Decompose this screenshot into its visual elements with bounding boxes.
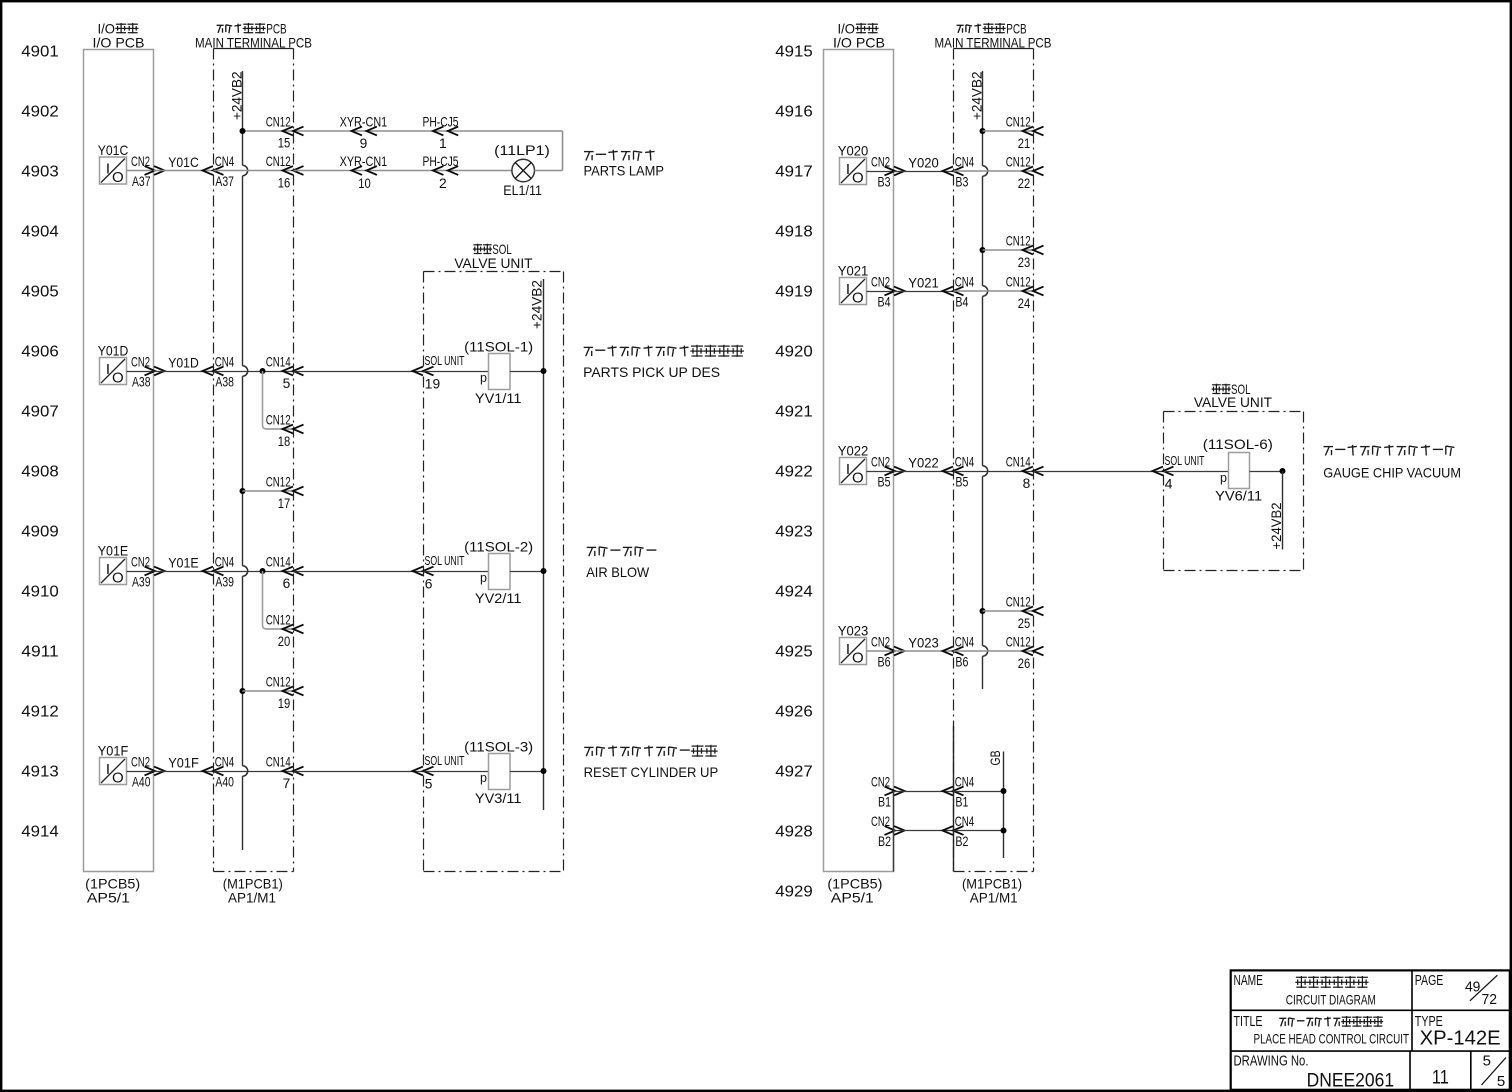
svg-text:RESET CYLINDER UP: RESET CYLINDER UP xyxy=(584,765,719,780)
svg-text:O: O xyxy=(852,170,864,187)
VALVE UNIT label (left) xyxy=(454,242,533,271)
svg-text:CN2: CN2 xyxy=(871,154,890,169)
junction +24VB2 to CN12-25 (right) xyxy=(980,608,986,614)
svg-text:I: I xyxy=(846,161,850,178)
svg-text:CN4: CN4 xyxy=(215,554,235,569)
row numbers 4915-4929 xyxy=(775,43,813,900)
MAIN TERMINAL PCB board outline (right) xyxy=(954,49,1034,872)
I/O PCB board outline (left) xyxy=(84,50,154,872)
connector SOL UNIT pin 4 (right) xyxy=(1153,453,1205,492)
svg-text:CN12: CN12 xyxy=(266,612,291,627)
svg-text:Y01C: Y01C xyxy=(168,155,199,170)
svg-text:AP5/1: AP5/1 xyxy=(87,891,130,906)
wire Y01D CN4 to CN14 xyxy=(214,371,294,373)
connector CN2 pin B3 (Y020) xyxy=(871,154,905,189)
svg-text:20: 20 xyxy=(278,634,291,649)
svg-text:CN12: CN12 xyxy=(1006,233,1031,248)
svg-text:A38: A38 xyxy=(132,374,151,389)
svg-text:+24VB2: +24VB2 xyxy=(530,280,545,329)
svg-text:17: 17 xyxy=(278,496,291,511)
svg-text:CN2: CN2 xyxy=(131,754,150,769)
svg-text:SOL UNIT: SOL UNIT xyxy=(425,553,465,568)
connector CN4 pin B1 xyxy=(943,774,975,809)
svg-text:16: 16 xyxy=(278,175,291,190)
connector CN12 pin 24 xyxy=(1006,274,1044,311)
svg-text:Y022: Y022 xyxy=(908,456,939,471)
connector CN12 pin 16 xyxy=(266,154,304,191)
svg-text:A39: A39 xyxy=(215,574,234,589)
svg-text:4905: 4905 xyxy=(21,283,59,300)
junction YV6/11 to +24VB2 rail (right valve) xyxy=(1280,468,1286,474)
svg-text:Y01F: Y01F xyxy=(168,756,199,771)
svg-text:TITLE: TITLE xyxy=(1234,1013,1263,1030)
svg-text:B3: B3 xyxy=(955,174,968,189)
svg-text:+24VB2: +24VB2 xyxy=(1269,503,1284,550)
svg-text:XYR-CN1: XYR-CN1 xyxy=(340,114,388,129)
svg-text:PCB: PCB xyxy=(266,22,287,37)
wire Y01D CN2 to CN4 xyxy=(154,371,214,373)
svg-text:B6: B6 xyxy=(955,654,968,669)
junction B1 to GB rail xyxy=(1001,788,1007,794)
svg-text:CN2: CN2 xyxy=(131,154,150,169)
svg-text:Y01E: Y01E xyxy=(168,556,199,571)
svg-text:8: 8 xyxy=(1023,476,1031,491)
MAIN TERMINAL PCB label (left) xyxy=(195,22,312,51)
svg-text:O: O xyxy=(112,770,124,787)
svg-text:DNEE2061: DNEE2061 xyxy=(1307,1070,1395,1091)
svg-text:4913: 4913 xyxy=(21,763,59,780)
svg-text:PARTS PICK UP DES: PARTS PICK UP DES xyxy=(583,365,720,380)
svg-text:CN4: CN4 xyxy=(955,154,975,169)
wire Y01F I/O block to CN2 xyxy=(127,771,154,773)
svg-text:4902: 4902 xyxy=(21,103,59,120)
svg-text:Y020: Y020 xyxy=(838,144,869,159)
wire solenoid YV1/11 to +24VB2 xyxy=(510,371,544,373)
svg-text:6: 6 xyxy=(425,577,433,592)
connector PH-CJ5 pin 1 xyxy=(423,114,459,151)
svg-text:Y01D: Y01D xyxy=(98,344,129,359)
svg-text:4926: 4926 xyxy=(775,703,813,720)
connector CN14 pin 6 xyxy=(266,554,304,591)
svg-text:A40: A40 xyxy=(132,774,151,789)
svg-text:CN14: CN14 xyxy=(266,754,291,769)
svg-text:YV1/11: YV1/11 xyxy=(475,391,522,406)
connector CN4 pin A38 (Y01D) xyxy=(203,354,235,389)
svg-text:DRAWING No.: DRAWING No. xyxy=(1234,1054,1309,1070)
svg-text:I: I xyxy=(846,281,850,298)
svg-text:4910: 4910 xyxy=(21,583,59,600)
svg-text:B1: B1 xyxy=(955,794,968,809)
connector CN2 pin A39 (Y01E) xyxy=(131,554,165,589)
title block frame xyxy=(1231,970,1510,1089)
svg-text:p: p xyxy=(480,771,487,785)
svg-text:4924: 4924 xyxy=(775,583,813,600)
svg-text:B2: B2 xyxy=(955,834,968,849)
svg-text:CN2: CN2 xyxy=(131,554,150,569)
svg-text:4919: 4919 xyxy=(775,283,813,300)
svg-text:CN4: CN4 xyxy=(215,354,235,369)
svg-text:Y022: Y022 xyxy=(838,444,869,459)
wire CN14 to SOL UNIT (Y01F) xyxy=(294,771,424,773)
svg-text:4921: 4921 xyxy=(775,403,813,420)
svg-text:CN12: CN12 xyxy=(1006,594,1031,609)
svg-text:PLACE HEAD CONTROL CIRCUIT: PLACE HEAD CONTROL CIRCUIT xyxy=(1254,1032,1410,1047)
svg-text:AP5/1: AP5/1 xyxy=(831,891,874,906)
wire +24VB2 to CN12 pin 17 xyxy=(243,490,294,492)
svg-text:+24VB2: +24VB2 xyxy=(229,72,244,121)
svg-text:PARTS LAMP: PARTS LAMP xyxy=(584,164,665,179)
connector CN4 pin B5 (Y022) xyxy=(943,454,975,489)
wire Y01E branch to CN12 xyxy=(267,628,294,630)
svg-text:(11SOL-3): (11SOL-3) xyxy=(464,740,533,755)
junction +24VB2 to CN12-23 (right) xyxy=(980,247,986,253)
wire B1 CN4 to GB rail xyxy=(954,791,1004,793)
svg-text:(11SOL-2): (11SOL-2) xyxy=(464,540,533,555)
svg-text:B5: B5 xyxy=(878,474,891,489)
svg-text:1: 1 xyxy=(439,136,447,151)
connector CN12 pin 20 xyxy=(266,612,304,649)
wire Y01C from I/O block to CN2 xyxy=(127,170,154,172)
I/O output block Y01C xyxy=(98,143,129,186)
I/O output block Y01F xyxy=(98,744,129,787)
svg-text:CN2: CN2 xyxy=(871,454,890,469)
svg-text:SOL UNIT: SOL UNIT xyxy=(425,353,465,368)
wire Y01C CN2 to CN4 xyxy=(154,170,214,172)
junction +24VB2 to CN12-17 xyxy=(240,488,246,494)
row numbers 4901-4914 xyxy=(21,43,59,840)
svg-text:4923: 4923 xyxy=(775,523,813,540)
svg-text:A40: A40 xyxy=(215,774,234,789)
wire Y01E I/O block to CN2 xyxy=(127,571,154,573)
svg-text:18: 18 xyxy=(278,434,291,449)
svg-text:7: 7 xyxy=(283,776,291,791)
svg-text:(1PCB5): (1PCB5) xyxy=(827,876,882,891)
+24VB2 power rail (left main) xyxy=(242,71,244,165)
solenoid YV3/11 xyxy=(464,740,533,806)
title block DRAWING No cell xyxy=(1234,1054,1395,1092)
connector CN4 pin B4 (Y021) xyxy=(943,274,975,309)
svg-text:B6: B6 xyxy=(878,654,891,669)
wire +24VB2 to CN12 pin 25 (right) xyxy=(983,610,1034,612)
annotation PARTS PICK UP DES xyxy=(583,345,744,380)
svg-text:2: 2 xyxy=(439,176,447,191)
svg-text:CN4: CN4 xyxy=(955,814,975,829)
svg-text:CN2: CN2 xyxy=(871,274,890,289)
svg-text:72: 72 xyxy=(1482,991,1498,1008)
svg-text:CN12: CN12 xyxy=(1006,114,1031,129)
svg-text:Y01D: Y01D xyxy=(168,356,199,371)
junction Y01E branch xyxy=(260,568,266,574)
connector CN12 pin 22 xyxy=(1006,154,1044,191)
svg-text:(11SOL-1): (11SOL-1) xyxy=(464,340,533,355)
svg-text:4917: 4917 xyxy=(775,163,813,180)
svg-text:4904: 4904 xyxy=(21,223,59,240)
svg-text:(11LP1): (11LP1) xyxy=(494,143,550,158)
svg-text:B3: B3 xyxy=(878,174,891,189)
svg-text:4915: 4915 xyxy=(775,43,813,60)
svg-text:5: 5 xyxy=(283,376,291,391)
svg-text:4911: 4911 xyxy=(21,643,59,660)
connector CN4 pin A37 (Y01C) xyxy=(203,154,235,189)
wire Y01E branch down xyxy=(263,571,267,629)
wire CN12-16 to parts lamp xyxy=(294,170,512,172)
wire B2 CN2 to CN4 xyxy=(894,830,954,832)
I/O output block Y022 xyxy=(838,444,869,487)
junction solenoid YV1/11 to +24VB2 rail xyxy=(541,368,547,374)
svg-text:24: 24 xyxy=(1018,296,1031,311)
connector CN12 pin 26 xyxy=(1006,634,1044,671)
svg-text:MAIN TERMINAL PCB: MAIN TERMINAL PCB xyxy=(195,36,312,51)
parts lamp EL1/11 (11LP1) xyxy=(494,143,550,198)
connector CN12 pin 19 xyxy=(266,674,304,711)
svg-text:4916: 4916 xyxy=(775,103,813,120)
junction +24VB2 to CN12-19 xyxy=(240,688,246,694)
VALVE UNIT label (right) xyxy=(1194,382,1273,410)
connector CN12 pin 15 xyxy=(266,114,304,150)
svg-text:CN4: CN4 xyxy=(955,774,975,789)
wire +24VB2 to CN12 pin 23 (right) xyxy=(983,249,1034,251)
svg-text:4922: 4922 xyxy=(775,463,813,480)
wire Y022 CN4 to CN14 xyxy=(954,471,1034,473)
svg-text:O: O xyxy=(852,650,864,667)
wire CN12 pin15 to PH-CJ5 pin1 (row 4902) xyxy=(243,130,294,132)
svg-text:+24VB2: +24VB2 xyxy=(969,72,984,121)
svg-text:CN4: CN4 xyxy=(215,754,235,769)
connector CN2 pin A38 (Y01D) xyxy=(131,354,165,389)
connector CN4 pin B6 (Y023) xyxy=(943,634,975,669)
wire Y01C CN4 to CN12 xyxy=(214,170,294,172)
svg-text:p: p xyxy=(1220,471,1227,485)
connector CN12 pin 23 (right) xyxy=(1006,233,1044,269)
VALVE UNIT enclosure (left) xyxy=(424,272,564,872)
svg-text:4912: 4912 xyxy=(21,703,59,720)
wire B2 CN4 to GB rail xyxy=(954,830,1004,832)
VALVE UNIT enclosure (right) xyxy=(1164,412,1304,571)
svg-text:CN2: CN2 xyxy=(871,634,890,649)
svg-text:4920: 4920 xyxy=(775,343,813,360)
wire solenoid YV2/11 to +24VB2 xyxy=(510,571,544,573)
connector CN12 pin 21 (right) xyxy=(1006,114,1044,151)
svg-text:EL1/11: EL1/11 xyxy=(503,183,542,198)
connector CN14 pin 8 xyxy=(1006,454,1044,491)
svg-text:22: 22 xyxy=(1018,176,1031,191)
svg-text:O: O xyxy=(112,169,124,186)
svg-text:CN2: CN2 xyxy=(131,354,150,369)
wire SOL UNIT to solenoid YV6/11 xyxy=(1164,471,1229,473)
svg-text:A38: A38 xyxy=(215,374,234,389)
I/O output block Y01D xyxy=(98,344,129,387)
svg-text:19: 19 xyxy=(278,696,291,711)
svg-text:6: 6 xyxy=(283,576,291,591)
svg-text:4908: 4908 xyxy=(21,463,59,480)
svg-text:Y01E: Y01E xyxy=(98,544,129,559)
wire Y022 CN14 to SOL UNIT xyxy=(1034,471,1164,473)
svg-text:4903: 4903 xyxy=(21,163,59,180)
I/O PCB label (left) xyxy=(93,22,145,51)
junction Y01D branch xyxy=(260,368,266,374)
title block sheet cell xyxy=(1432,1053,1506,1090)
svg-text:I/O PCB: I/O PCB xyxy=(833,36,885,51)
svg-text:Y023: Y023 xyxy=(838,624,869,639)
MAIN TERMINAL PCB label (right) xyxy=(935,22,1052,51)
svg-text:AP1/M1: AP1/M1 xyxy=(970,891,1018,906)
svg-text:SOL UNIT: SOL UNIT xyxy=(1165,453,1205,468)
svg-text:4906: 4906 xyxy=(21,343,59,360)
svg-text:VALVE UNIT: VALVE UNIT xyxy=(454,256,533,271)
svg-text:B4: B4 xyxy=(878,294,891,309)
svg-text:11: 11 xyxy=(1432,1068,1449,1089)
svg-text:CN4: CN4 xyxy=(215,154,235,169)
I/O PCB board outline (right) xyxy=(824,50,894,872)
svg-text:4907: 4907 xyxy=(21,403,59,420)
wire Y01D branch down xyxy=(263,371,267,429)
svg-text:YV2/11: YV2/11 xyxy=(475,591,522,606)
svg-text:25: 25 xyxy=(1018,616,1031,631)
wire SOL UNIT to solenoid YV2/11 xyxy=(424,571,489,573)
svg-text:9: 9 xyxy=(360,136,368,151)
svg-text:Y01F: Y01F xyxy=(98,744,129,759)
board name (1PCB5) AP5/1 (left) xyxy=(85,876,140,905)
wire along CN4 border to board bottom xyxy=(953,726,955,872)
svg-text:XP-142E: XP-142E xyxy=(1420,1028,1501,1050)
solenoid YV6/11 xyxy=(1203,437,1273,504)
svg-text:B2: B2 xyxy=(878,834,891,849)
svg-text:YV6/11: YV6/11 xyxy=(1215,489,1262,504)
svg-text:4928: 4928 xyxy=(775,823,813,840)
+24VB2 rail inside valve unit (left) xyxy=(530,279,545,810)
svg-text:CN2: CN2 xyxy=(871,774,890,789)
connector CN2 pin B5 (Y022) xyxy=(871,454,905,489)
connector CN12 pin 18 xyxy=(266,412,304,449)
title block PAGE cell xyxy=(1415,972,1498,1008)
svg-text:CN12: CN12 xyxy=(266,154,291,169)
svg-text:NAME: NAME xyxy=(1234,972,1264,989)
svg-text:4909: 4909 xyxy=(21,523,59,540)
svg-text:5: 5 xyxy=(1497,1073,1505,1090)
wire Y020 I/O block to CN2 xyxy=(867,171,894,173)
I/O output block Y01E xyxy=(98,544,129,587)
junction +24VB2 to CN12-15 xyxy=(240,128,246,134)
I/O output block Y020 xyxy=(838,144,869,187)
svg-text:GAUGE CHIP VACUUM: GAUGE CHIP VACUUM xyxy=(1323,466,1461,481)
connector CN2 pin B2 xyxy=(871,814,905,849)
svg-text:B1: B1 xyxy=(878,794,891,809)
+24VB2 rail inside valve unit (right) xyxy=(1269,471,1284,550)
svg-text:Y01C: Y01C xyxy=(98,143,129,158)
svg-text:AIR BLOW: AIR BLOW xyxy=(586,565,649,580)
wire Y01D branch to CN12 xyxy=(267,428,294,430)
svg-text:I/O PCB: I/O PCB xyxy=(93,36,145,51)
svg-text:4914: 4914 xyxy=(21,823,59,840)
svg-text:I/O: I/O xyxy=(98,22,116,37)
svg-text:CN12: CN12 xyxy=(266,114,291,129)
wire B1-B2 link at CN2 xyxy=(893,791,895,872)
svg-text:XYR-CN1: XYR-CN1 xyxy=(340,154,388,169)
title block NAME cell xyxy=(1234,972,1376,1008)
svg-text:A39: A39 xyxy=(132,574,151,589)
wire CN14 to SOL UNIT (Y01D) xyxy=(294,371,424,373)
connector CN2 pin B1 xyxy=(871,774,905,809)
svg-text:Y020: Y020 xyxy=(908,156,939,171)
svg-text:4: 4 xyxy=(1165,477,1173,492)
svg-text:I: I xyxy=(846,641,850,658)
svg-text:p: p xyxy=(480,571,487,585)
wire Y021 CN4 to CN12 xyxy=(954,290,1034,292)
wire Y020 CN2 to CN4 xyxy=(894,171,954,173)
connector CN12 pin 17 xyxy=(266,474,304,511)
svg-text:26: 26 xyxy=(1018,656,1031,671)
connector CN2 pin A37 (Y01C) xyxy=(131,154,165,189)
I/O output block Y023 xyxy=(838,624,869,667)
svg-text:I: I xyxy=(106,361,110,378)
wire CN14 to SOL UNIT (Y01E) xyxy=(294,571,424,573)
svg-text:(M1PCB1): (M1PCB1) xyxy=(223,876,283,891)
wire lamp to right loop xyxy=(535,170,563,172)
annotation gauge chip vacuum xyxy=(1323,445,1461,481)
svg-text:CN2: CN2 xyxy=(871,814,890,829)
wire SOL UNIT to solenoid YV3/11 xyxy=(424,771,489,773)
svg-text:O: O xyxy=(112,370,124,387)
svg-text:A37: A37 xyxy=(132,174,151,189)
wire lamp loop vertical xyxy=(562,131,564,171)
wire Y01E CN2 to CN4 xyxy=(154,571,214,573)
wire Y022 I/O block to CN2 xyxy=(867,471,894,473)
wire Y01F CN4 to CN14 xyxy=(214,771,294,773)
connector SOL UNIT pin 5 xyxy=(413,753,465,792)
wire Y022 CN2 to CN4 xyxy=(894,471,954,473)
svg-text:CN12: CN12 xyxy=(1006,274,1031,289)
svg-text:B4: B4 xyxy=(955,294,968,309)
svg-text:4929: 4929 xyxy=(775,883,813,900)
wire Y01F CN2 to CN4 xyxy=(154,771,214,773)
connector XYR-CN1 pin 9 xyxy=(340,114,388,151)
wire Y021 I/O block to CN2 xyxy=(867,291,894,293)
svg-text:A37: A37 xyxy=(215,174,234,189)
connector CN14 pin 5 xyxy=(266,354,304,391)
MAIN TERMINAL PCB board outline (left) xyxy=(214,49,294,872)
wire Y020 CN4 to CN12 xyxy=(954,170,1034,172)
svg-text:I: I xyxy=(106,561,110,578)
wire Y023 CN4 to CN12 xyxy=(954,650,1034,652)
svg-text:21: 21 xyxy=(1018,136,1031,151)
svg-text:Y021: Y021 xyxy=(908,276,939,291)
wire +24VB2 to CN12 pin 19 xyxy=(243,690,294,692)
svg-text:4918: 4918 xyxy=(775,223,813,240)
svg-text:15: 15 xyxy=(278,136,291,151)
connector CN14 pin 7 xyxy=(266,754,304,791)
svg-text:4927: 4927 xyxy=(775,763,813,780)
svg-text:CN4: CN4 xyxy=(955,274,975,289)
connector CN12 pin 25 (right) xyxy=(1006,594,1044,631)
svg-text:5: 5 xyxy=(1483,1053,1491,1070)
svg-text:CN4: CN4 xyxy=(955,454,975,469)
wire SOL UNIT to solenoid YV1/11 xyxy=(424,371,489,373)
svg-text:PCB: PCB xyxy=(1006,22,1026,37)
svg-text:I/O: I/O xyxy=(838,22,856,37)
svg-text:GB: GB xyxy=(988,750,1003,765)
svg-text:19: 19 xyxy=(425,377,441,392)
wire Y023 I/O block to CN2 xyxy=(867,650,894,652)
wire Y01E CN4 to CN14 xyxy=(214,571,294,573)
connector CN4 pin A39 (Y01E) xyxy=(203,554,235,589)
annotation AIR BLOW xyxy=(586,547,656,580)
solenoid YV1/11 xyxy=(464,340,533,406)
junction solenoid YV2/11 to +24VB2 rail xyxy=(541,568,547,574)
svg-text:VALVE UNIT: VALVE UNIT xyxy=(1194,395,1273,410)
svg-text:(11SOL-6): (11SOL-6) xyxy=(1203,437,1273,452)
svg-text:I: I xyxy=(846,461,850,478)
svg-text:(1PCB5): (1PCB5) xyxy=(85,876,140,891)
